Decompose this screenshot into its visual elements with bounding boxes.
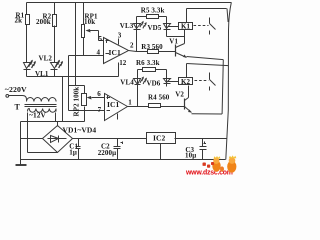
- LED VL3 arrows: [140, 22, 143, 28]
- svg-text:VD1~VD4: VD1~VD4: [63, 126, 97, 135]
- transformer T secondary: [28, 109, 57, 113]
- LED VL3: [134, 24, 141, 30]
- resistor R1: [26, 3, 28, 15]
- svg-text:10k: 10k: [84, 18, 95, 26]
- diode VD6: [164, 70, 171, 87]
- wire bridge top stub: [57, 122, 59, 126]
- transformer core: [25, 105, 57, 107]
- regulator IC2: [147, 133, 176, 144]
- potentiometer RP1: [83, 3, 85, 25]
- svg-text:200k: 200k: [36, 18, 51, 26]
- wire ground rail: [21, 159, 226, 161]
- wire top rail: [27, 2, 232, 4]
- capacitor C2: [114, 139, 121, 160]
- svg-text:VD6: VD6: [147, 80, 161, 88]
- wire bridge left: [21, 138, 43, 140]
- capacitor C3: [200, 139, 207, 160]
- wire pin5 input: [99, 40, 104, 42]
- svg-text:5: 5: [99, 35, 103, 43]
- svg-text:V1: V1: [169, 38, 178, 46]
- resistor R5: [137, 16, 167, 18]
- wire pin4 input: [69, 55, 104, 57]
- op-amp IC1 upper pin12 tick: [118, 63, 120, 77]
- wire secondary right drop: [55, 113, 57, 122]
- wire right outer border: [226, 3, 232, 160]
- wire V1 emitter to border: [187, 57, 224, 60]
- LED VL2 arrows: [56, 61, 60, 67]
- wire bridge right to IC2: [73, 138, 147, 140]
- svg-text:RP2 100k: RP2 100k: [73, 87, 81, 117]
- svg-text:4: 4: [97, 49, 101, 57]
- svg-text:1: 1: [128, 98, 132, 106]
- terminal circle mains: [6, 95, 9, 98]
- LED VL4 arrows: [140, 77, 143, 83]
- op-amp IC1 lower supply tick: [117, 114, 119, 120]
- wire V2 emitter to inner: [192, 113, 223, 115]
- wire K1 feed stub: [186, 9, 188, 23]
- diode VD5: [164, 17, 171, 37]
- contact K2: [210, 73, 216, 91]
- svg-text:12: 12: [119, 59, 127, 67]
- svg-text:V2: V2: [175, 90, 184, 98]
- node 2' wire (lower output): [128, 106, 149, 108]
- wire mains drop to ground: [20, 122, 22, 165]
- resistor R4: [149, 104, 161, 108]
- op-amp IC1 upper: [104, 38, 129, 64]
- svg-text:~220V: ~220V: [5, 85, 27, 94]
- linkage K2 dashes: [195, 80, 209, 82]
- wire secondary left drop: [27, 113, 29, 153]
- svg-text:K2: K2: [181, 78, 191, 86]
- svg-text:R5 3.3k: R5 3.3k: [141, 7, 165, 15]
- svg-text:VL4: VL4: [120, 79, 134, 87]
- wire LED rail drop: [62, 77, 64, 122]
- ground: [16, 164, 27, 166]
- wire mid drop to RP2: [69, 3, 85, 94]
- node 2 wire (upper output): [129, 51, 148, 52]
- svg-text:2200μ: 2200μ: [98, 149, 116, 157]
- wire power rail 12V: [21, 121, 85, 123]
- svg-text:VD5: VD5: [148, 24, 162, 32]
- wire K1 left: [168, 26, 179, 28]
- wire K1 feed rail: [187, 8, 227, 10]
- wire K2 left: [168, 81, 179, 83]
- capacitor C1: [76, 139, 81, 160]
- contact K1: [210, 18, 216, 35]
- svg-text:2: 2: [130, 41, 134, 49]
- wire node2 riser: [136, 17, 138, 52]
- op-amp IC1 upper pin3 tick: [118, 39, 120, 45]
- transformer T primary: [27, 98, 57, 102]
- svg-text:IC2: IC2: [153, 134, 166, 143]
- resistor R2: [54, 3, 56, 15]
- wire pin4 to pin7 link: [68, 56, 70, 111]
- svg-text:2k: 2k: [15, 17, 23, 25]
- svg-text:3: 3: [118, 32, 122, 40]
- svg-text:VL2: VL2: [39, 55, 53, 63]
- LED VL1: [24, 63, 31, 77]
- resistor R3: [148, 50, 159, 54]
- LED VL2: [51, 63, 58, 77]
- svg-text:K1: K1: [181, 23, 191, 31]
- transistor V1: [175, 45, 177, 57]
- op-amp IC1 lower: [105, 94, 128, 121]
- wire mains lead: [9, 96, 27, 101]
- wire K2 feed stub: [186, 64, 188, 78]
- potentiometer RP2: [82, 94, 87, 106]
- svg-text:IC1: IC1: [107, 100, 120, 109]
- svg-text:~12V: ~12V: [29, 111, 47, 120]
- LED VL4: [134, 79, 141, 85]
- LED VL1 arrows: [29, 61, 33, 67]
- transistor V2: [184, 99, 186, 110]
- svg-text:10μ: 10μ: [185, 152, 196, 160]
- linkage K1 dashes: [194, 25, 209, 27]
- wire right inner slant: [227, 9, 228, 23]
- potentiometer RP2 wiper: [92, 97, 105, 99]
- svg-text:T: T: [15, 102, 21, 111]
- svg-text:VL3: VL3: [120, 22, 134, 30]
- svg-text:R3 560: R3 560: [141, 43, 163, 51]
- wire IC2 ground pin: [160, 144, 162, 160]
- wire VD5 to collector: [167, 36, 185, 38]
- svg-text:6: 6: [97, 90, 101, 98]
- wire pin7 input: [69, 110, 105, 112]
- relay coil K1: [179, 23, 193, 30]
- resistor R6: [138, 69, 167, 71]
- relay coil K2: [179, 78, 193, 85]
- wire pin6 input: [92, 97, 105, 99]
- potentiometer RP1 wiper: [87, 31, 104, 41]
- wire K2 feed: [187, 64, 229, 66]
- wire secondary to bridge bottom: [28, 152, 58, 154]
- wire node2' riser: [137, 70, 139, 107]
- wire IC2 output: [175, 138, 228, 140]
- bridge rectifier VD1-VD4: [43, 126, 73, 153]
- wire right inner lower slant: [222, 60, 223, 114]
- wire LED rail: [27, 76, 119, 78]
- svg-text:R4 560: R4 560: [148, 94, 170, 102]
- svg-text:IC1: IC1: [109, 48, 122, 57]
- watermark: [185, 155, 236, 176]
- svg-text:1μ: 1μ: [69, 149, 77, 157]
- svg-text:www.dzsc.com: www.dzsc.com: [185, 170, 233, 176]
- svg-text:7: 7: [98, 106, 102, 114]
- svg-text:R6 3.3k: R6 3.3k: [136, 59, 160, 67]
